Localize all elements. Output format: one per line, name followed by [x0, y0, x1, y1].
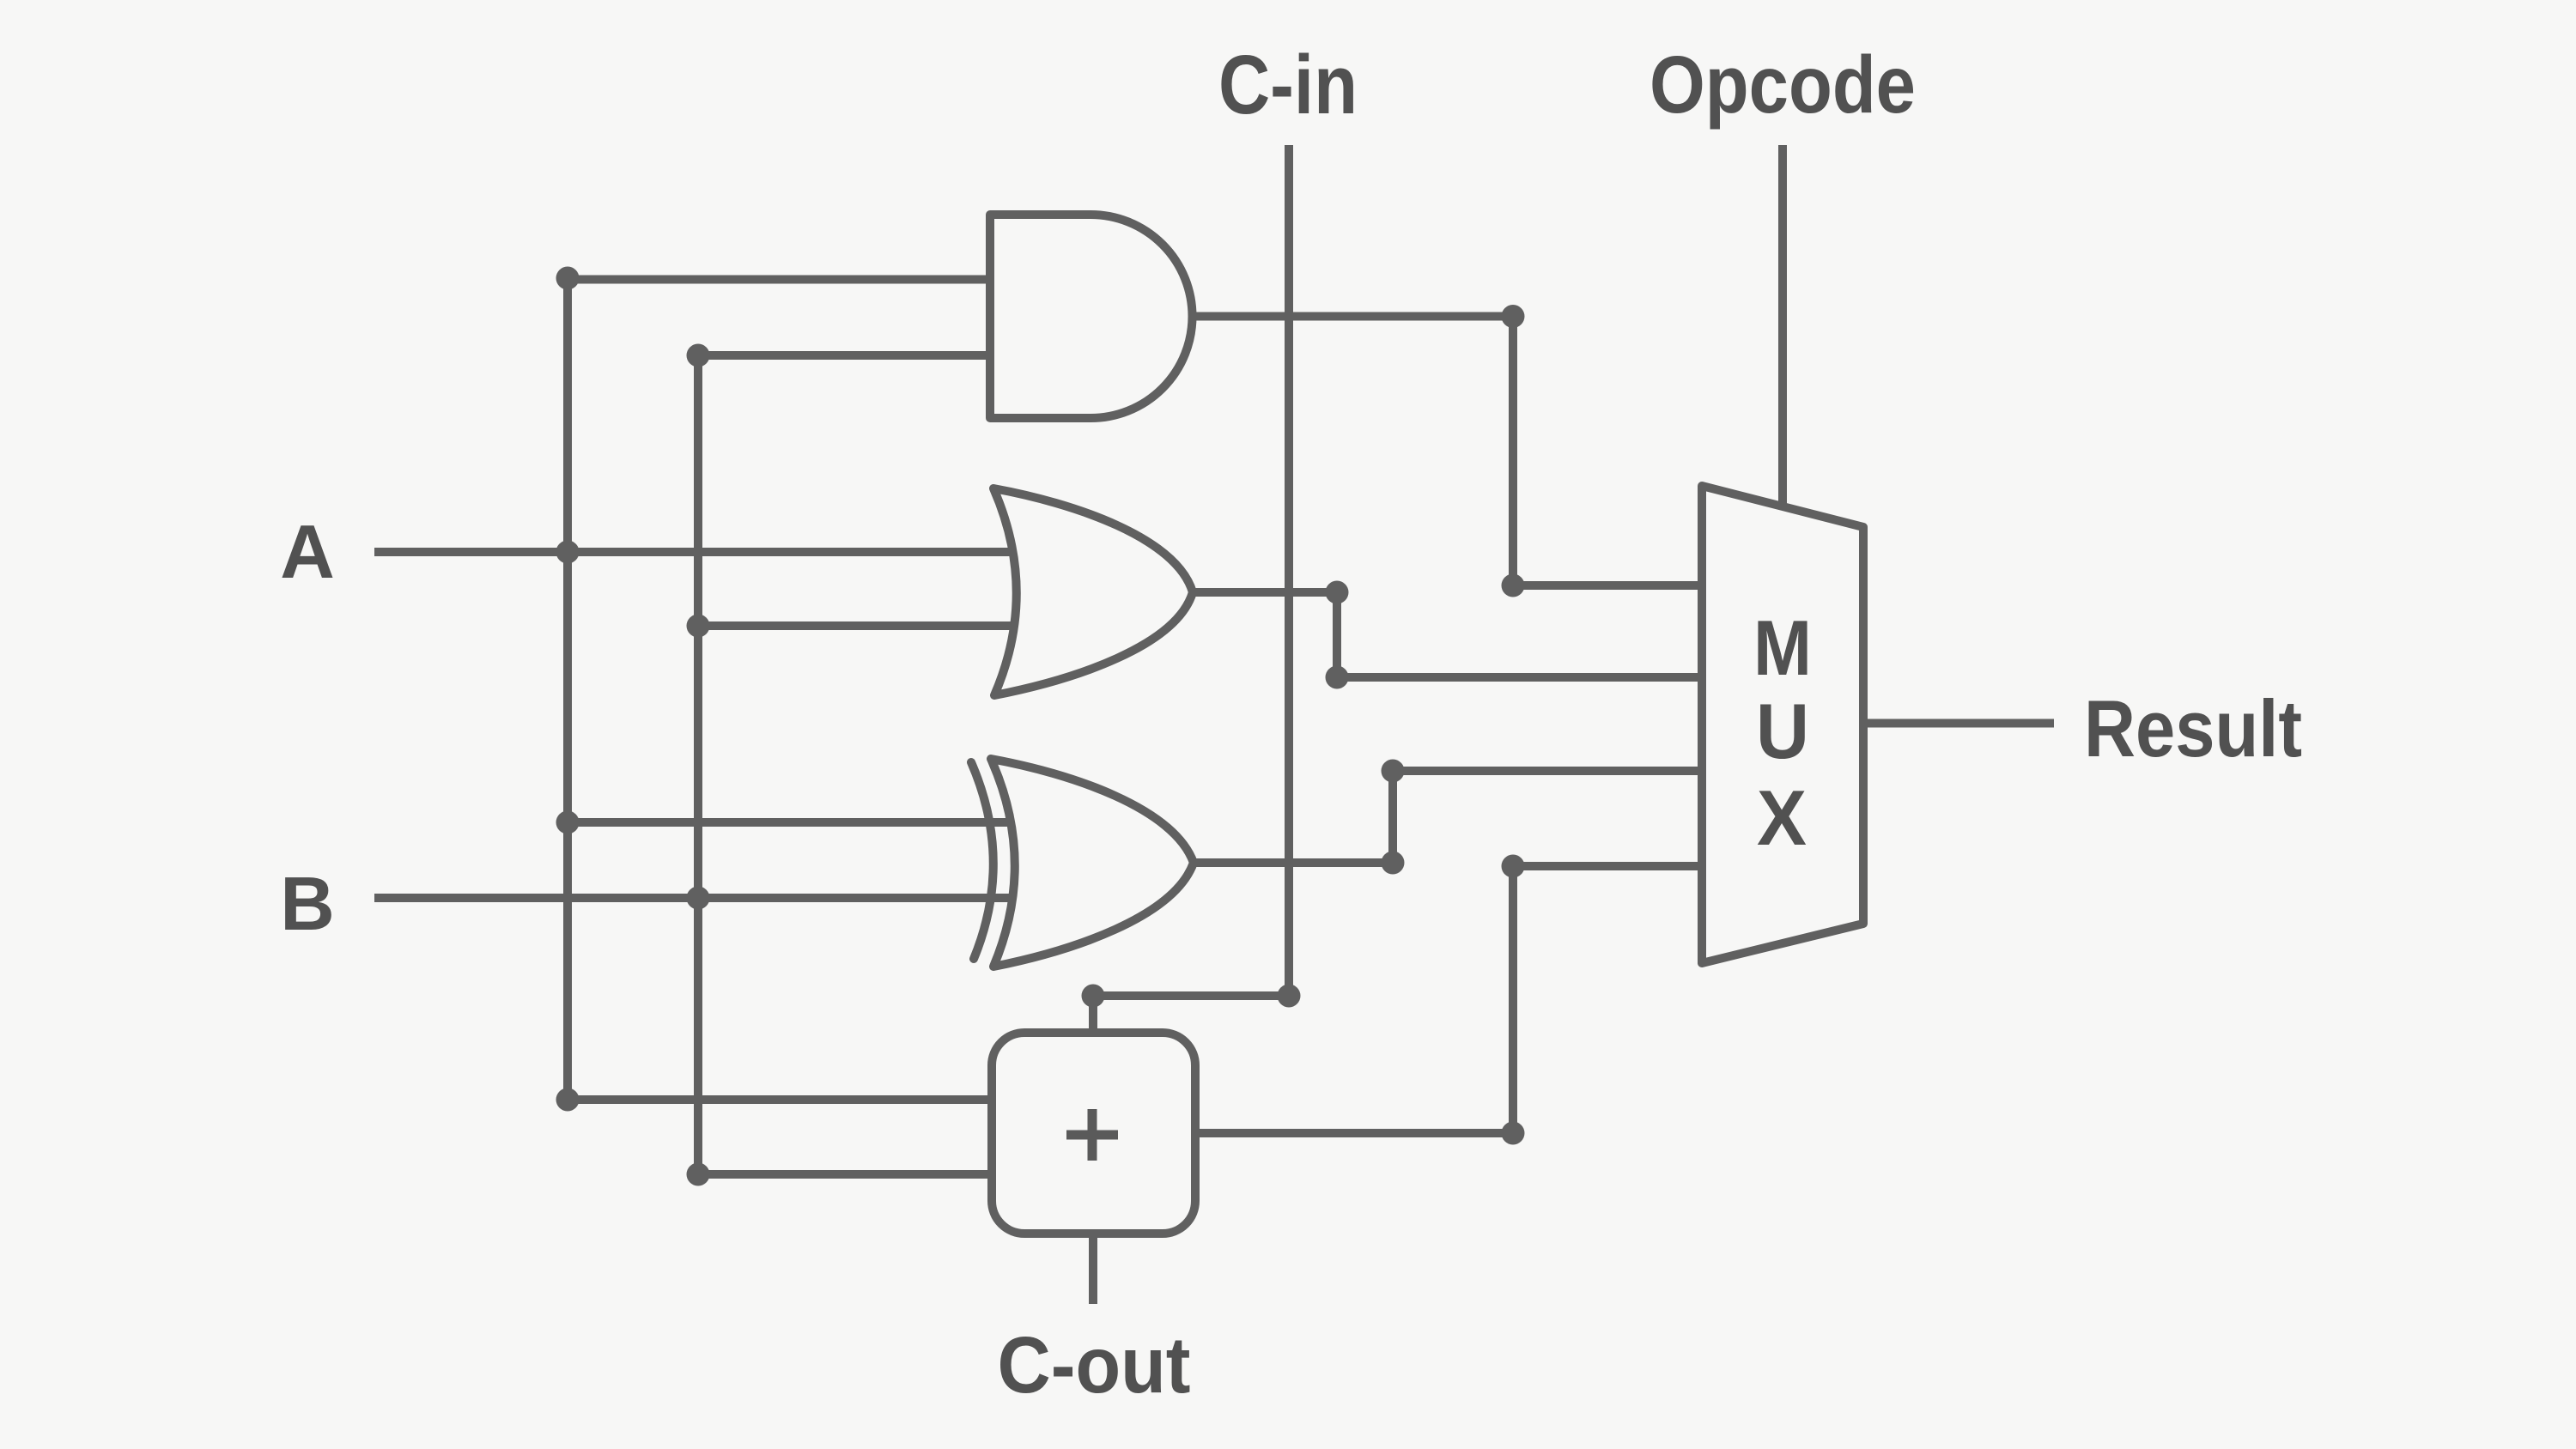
wire OR output [1191, 588, 1337, 597]
wire OR input 2 [698, 621, 1035, 630]
junction A bus / AND input 1 [556, 267, 580, 290]
wire B input line [374, 894, 1035, 902]
wire adder output [1194, 1129, 1513, 1137]
OR gate [993, 488, 1193, 695]
junction adder top pin [1082, 985, 1105, 1008]
junction A bus / adder input 1 [556, 1088, 580, 1112]
wire MUX input 3 [1393, 767, 1710, 775]
wire adder input 2 [698, 1170, 1000, 1179]
wire AND input 2 [698, 351, 994, 360]
wire adder to MUX vertical [1509, 866, 1517, 1133]
wire adder input 1 [568, 1095, 1000, 1104]
junction A line / A bus [556, 541, 580, 564]
junction B line / B bus [687, 887, 710, 910]
adder block [992, 1033, 1195, 1234]
svg-text:Result: Result [2084, 683, 2302, 773]
junction B bus / OR input 2 [687, 615, 710, 638]
junction B bus / AND input 2 [687, 344, 710, 367]
svg-text:U: U [1756, 688, 1809, 775]
wire C-in vertical [1285, 145, 1293, 996]
wire AND input 1 [568, 276, 994, 284]
junction AND output corner [1502, 305, 1525, 328]
AND gate [990, 215, 1193, 418]
wire XOR input 1 [568, 818, 1035, 827]
wire C-out stub [1089, 1230, 1097, 1304]
junction adder output corner [1502, 1122, 1525, 1145]
svg-text:C-out: C-out [998, 1320, 1191, 1410]
wire MUX input 2 [1337, 673, 1710, 682]
wire A input line [374, 548, 1035, 556]
XOR gate body [991, 759, 1194, 967]
svg-text:C-in: C-in [1218, 38, 1358, 131]
junction C-in end [1278, 985, 1301, 1008]
adder plus sign [1066, 1109, 1118, 1161]
wire MUX input 4 [1513, 862, 1710, 870]
svg-text:M: M [1753, 605, 1812, 692]
junction MUX input 3 corner [1382, 760, 1405, 783]
wire AND output [1188, 312, 1513, 321]
wire Opcode vertical [1778, 145, 1787, 549]
junction MUX input 4 corner [1502, 855, 1525, 878]
wire AND to MUX vertical [1509, 317, 1517, 586]
junction MUX input 1 corner [1502, 574, 1525, 597]
wire XOR to MUX vertical [1388, 771, 1397, 863]
junction B bus / adder input 2 [687, 1163, 710, 1186]
svg-text:A: A [280, 509, 335, 594]
wire OR to MUX vertical [1333, 592, 1341, 677]
svg-text:B: B [280, 861, 335, 946]
junction MUX input 2 corner [1326, 666, 1349, 689]
wire MUX input 1 [1513, 581, 1710, 590]
svg-text:X: X [1757, 775, 1807, 862]
junction OR output corner [1326, 581, 1349, 604]
XOR leading arc [971, 762, 993, 959]
wire adder top pin [1089, 996, 1097, 1039]
junction XOR output corner [1382, 852, 1405, 875]
wire XOR output [1190, 858, 1393, 867]
svg-text:Opcode: Opcode [1649, 39, 1916, 130]
wire B bus vertical [694, 355, 702, 1174]
wire Result output [1855, 719, 2054, 728]
MUX trapezoid [1702, 486, 1863, 963]
junction A bus / XOR input 1 [556, 811, 580, 834]
wire A bus vertical [563, 278, 572, 1100]
wire C-in to adder [1093, 991, 1289, 1000]
